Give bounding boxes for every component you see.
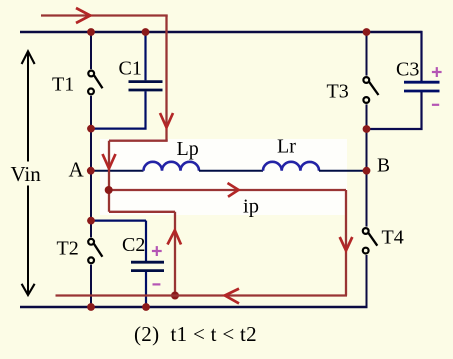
C3 minus sign (432, 104, 439, 106)
wire C2 bottom to bottom rail (145, 272, 147, 307)
junction dot C3 bottom (363, 125, 371, 133)
wire top rail (20, 31, 422, 34)
capacitor C1 (129, 82, 163, 90)
red current path: ip horizontal (109, 189, 347, 191)
red current path: vertical into node A (108, 141, 110, 212)
junction dot T3 top (363, 28, 371, 36)
svg-text:T3: T3 (327, 81, 349, 103)
wire C1 branch top (144, 32, 146, 80)
wire node B to T4 (366, 171, 368, 227)
wire bottom rail (20, 306, 368, 309)
wire Lr to node B (319, 170, 368, 172)
C2 plus sign (152, 246, 162, 256)
svg-text:A: A (69, 158, 85, 182)
svg-text:Lr: Lr (277, 136, 296, 158)
svg-text:B: B (377, 156, 390, 177)
red current path: jog left above node A (109, 140, 168, 142)
red current path: top horizontal (41, 14, 168, 16)
wire T3 leg upper (366, 32, 368, 76)
transistor T3 (363, 77, 378, 103)
white patch behind primary loop (100, 139, 347, 215)
red arrow left on bottom wire (225, 289, 239, 304)
wire T2 bottom to bottom rail (90, 265, 92, 307)
red arrow right on top wire (76, 8, 90, 23)
svg-text:Vin: Vin (11, 162, 42, 186)
wire T4 bottom to bottom rail (366, 255, 368, 307)
svg-text:C3: C3 (396, 59, 419, 81)
junction dot C1 top (142, 28, 150, 36)
svg-text:C2: C2 (122, 234, 145, 256)
svg-text:ip: ip (243, 196, 259, 218)
red arrow down at node A (103, 154, 116, 169)
red node on C2 branch bottom (171, 292, 179, 300)
Vin arrowhead down (22, 284, 35, 295)
junction dot node A (87, 167, 95, 175)
capacitor C2 (131, 262, 164, 270)
svg-text:T1: T1 (52, 74, 74, 96)
red arrow up on C2 branch (168, 230, 182, 244)
Vin arrow line upper (27, 52, 29, 162)
Vin arrow line lower (27, 186, 29, 295)
red arrow down at C1 (160, 113, 173, 128)
capacitor C3 (404, 82, 440, 91)
red current path: horizontal connector to C2 branch (109, 211, 175, 213)
wire T3 to node B (366, 104, 368, 171)
red current path: vertical through C1 side (165, 16, 167, 141)
C3 plus sign (432, 67, 442, 77)
C2 minus sign (153, 283, 161, 285)
red node at ip start (105, 186, 113, 194)
wire between Lp and Lr (199, 170, 263, 172)
svg-text:T4: T4 (382, 227, 404, 249)
Vin arrowhead up (22, 51, 35, 64)
transistor T2 (88, 239, 102, 263)
svg-text:Lp: Lp (177, 138, 199, 160)
wire T2 top to C2 (91, 220, 146, 222)
wire C3 bottom to T3 leg (367, 92, 422, 129)
transistor T4 (363, 228, 377, 253)
junction dot C1 bottom (87, 125, 95, 133)
svg-text:(2) t1 < t < t2: (2) t1 < t < t2 (134, 322, 257, 346)
junction dot C2 top (87, 217, 95, 225)
svg-text:T2: T2 (57, 237, 79, 259)
wire right vertical to C3 (420, 31, 422, 81)
inductor Lp (144, 162, 200, 171)
red arrow down at T4 (340, 237, 353, 251)
wire left leg top (90, 31, 92, 69)
svg-text:C1: C1 (119, 58, 142, 80)
red current path: C2 branch vertical (174, 212, 176, 296)
red current path: bottom horizontal (56, 294, 348, 296)
wire node A to node B with inductors (91, 170, 144, 172)
wire C1 bottom to left leg (91, 91, 146, 128)
transistor T1 (88, 71, 102, 95)
junction dot node B (363, 167, 371, 175)
wire C2 branch top (145, 221, 147, 261)
red current path: right vertical through T4 (345, 190, 347, 296)
red arrow right on ip wire (228, 183, 239, 197)
inductor Lr (263, 162, 319, 171)
junction dot left leg bottom (87, 303, 95, 311)
wire T1 bottom to T2 top (90, 96, 92, 238)
junction dot top of left leg (87, 28, 95, 36)
junction dot C2 bottom (142, 303, 150, 311)
